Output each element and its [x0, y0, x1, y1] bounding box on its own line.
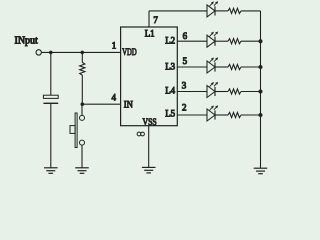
- pin 1 label: [112, 41, 117, 51]
- push button S1 contact top: [80, 115, 85, 120]
- resistor R6: [228, 112, 241, 117]
- LED D2: [207, 31, 218, 47]
- label L4: [165, 87, 175, 97]
- label L2: [165, 36, 175, 46]
- LED D4: [207, 82, 218, 98]
- wire VSS to ground: [148, 126, 150, 168]
- LED D3: [207, 57, 218, 73]
- wire LED D4 to resistor R5: [215, 91, 228, 93]
- svg-text:L5: L5: [165, 109, 175, 119]
- wire node C to IN pin: [82, 103, 120, 105]
- rail junction row 2: [259, 39, 263, 43]
- svg-text:L4: L4: [165, 87, 175, 97]
- wire input to VDD pin: [42, 51, 121, 53]
- rail junction row 3: [259, 65, 263, 69]
- svg-text:6: 6: [183, 31, 188, 41]
- pin 2 label: [182, 103, 187, 113]
- resistor R2: [228, 8, 241, 13]
- pin 8 label rotated: [137, 132, 144, 136]
- svg-text:L2: L2: [165, 36, 175, 46]
- ground below VSS: [142, 167, 156, 173]
- wire push button to ground: [81, 145, 83, 168]
- svg-text:2: 2: [182, 103, 187, 113]
- capacitor C1 top plate: [43, 95, 58, 98]
- wire resistor R4 to rail: [241, 66, 261, 68]
- svg-text:VSS: VSS: [143, 118, 157, 128]
- label VSS: [143, 118, 157, 128]
- label IN: [124, 101, 133, 111]
- ground below capacitor: [44, 168, 58, 174]
- LED D5: [207, 105, 218, 121]
- wire pin5 to LED D3: [177, 66, 207, 68]
- junction node B: [81, 51, 85, 55]
- svg-text:3: 3: [182, 81, 187, 91]
- LED D1: [207, 1, 218, 17]
- wire pin2 to LED D5: [177, 114, 207, 116]
- right supply rail: [260, 11, 262, 168]
- wire resistor R6 to rail: [241, 114, 261, 116]
- label L5: [165, 109, 175, 119]
- junction node A: [49, 51, 53, 55]
- wire resistor R3 to rail: [241, 40, 261, 42]
- input terminal: [36, 50, 41, 55]
- wire resistor R5 to rail: [241, 91, 261, 93]
- svg-text:INput: INput: [15, 36, 39, 47]
- push button S1 contact bottom: [80, 140, 85, 145]
- svg-text:VDD: VDD: [122, 48, 136, 58]
- ground below rail: [254, 168, 268, 174]
- svg-text:5: 5: [183, 56, 188, 66]
- wire LED D5 to resistor R6: [215, 114, 228, 116]
- resistor R1: [80, 52, 85, 104]
- resistor R5: [228, 89, 241, 94]
- pin 7 stub wire: [148, 11, 150, 27]
- wire resistor R2 to rail: [241, 10, 261, 12]
- svg-text:4: 4: [112, 92, 117, 102]
- wire node C to push button: [81, 104, 83, 115]
- pin 5 label: [183, 56, 188, 66]
- pin 6 label: [183, 31, 188, 41]
- wire capacitor to ground: [50, 103, 52, 168]
- svg-text:1: 1: [112, 41, 117, 51]
- wire LED D2 to resistor R3: [215, 40, 228, 42]
- label INput: [15, 36, 39, 47]
- resistor R4: [228, 64, 241, 69]
- pin 7 label: [153, 15, 158, 25]
- svg-text:L3: L3: [165, 63, 175, 73]
- wire LED D3 to resistor R4: [215, 66, 228, 68]
- rail junction row 5: [259, 113, 263, 117]
- wire pin7 to LED D1: [149, 10, 207, 12]
- wire pin6 to LED D2: [177, 40, 207, 42]
- ground below push button: [75, 168, 89, 174]
- label L3: [165, 63, 175, 73]
- IC U1 body: [121, 27, 178, 126]
- svg-text:L1: L1: [145, 29, 155, 39]
- svg-text:IN: IN: [124, 101, 133, 111]
- svg-text:7: 7: [153, 15, 158, 25]
- rail junction row 4: [259, 90, 263, 94]
- wire LED D1 to resistor R2: [215, 10, 228, 12]
- label VDD: [122, 48, 136, 58]
- push button S1 actuator: [70, 113, 77, 148]
- resistor R3: [228, 39, 241, 44]
- pin 3 label: [182, 81, 187, 91]
- junction node C: [81, 102, 85, 106]
- wire pin3 to LED D4: [177, 91, 207, 93]
- capacitor C1 bottom plate: [43, 102, 58, 104]
- wire node A down to capacitor: [50, 52, 52, 95]
- label L1: [145, 29, 155, 39]
- pin 4 label: [112, 92, 117, 102]
